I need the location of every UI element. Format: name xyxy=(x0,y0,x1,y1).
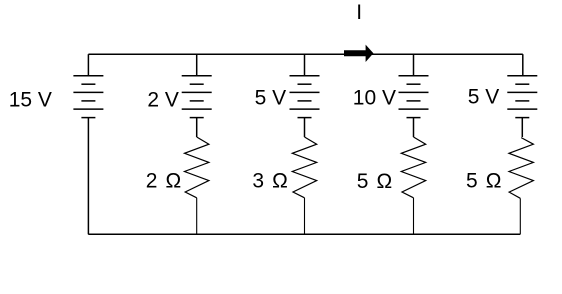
wire top bus xyxy=(88,53,522,55)
svg-text:2 Ω: 2 Ω xyxy=(146,169,183,192)
resistor R2 3ohm xyxy=(292,137,316,198)
svg-text:5 Ω: 5 Ω xyxy=(357,170,394,193)
wire left branch bottom xyxy=(87,118,89,235)
wire branch4 top stub xyxy=(413,54,415,75)
svg-text:5 Ω: 5 Ω xyxy=(466,169,503,192)
resistor R1 2ohm xyxy=(185,137,209,198)
svg-text:10 V: 10 V xyxy=(353,86,396,109)
svg-text:15 V: 15 V xyxy=(9,89,52,112)
svg-text:5 V: 5 V xyxy=(255,87,287,110)
svg-text:I: I xyxy=(356,1,362,24)
resistor R4 5ohm xyxy=(509,138,533,199)
wire branch4 bottom stub xyxy=(413,198,415,235)
wire branch5 bottom stub xyxy=(519,198,521,234)
svg-text:3 Ω: 3 Ω xyxy=(252,169,289,192)
wire branch2 bottom stub xyxy=(196,198,198,235)
battery B4 10V xyxy=(399,76,429,118)
current arrow xyxy=(344,45,373,62)
wire branch2 mid stub xyxy=(196,118,198,137)
resistor R3 5ohm xyxy=(401,137,425,198)
battery B1 15V xyxy=(73,76,103,118)
wire branch3 top stub xyxy=(304,54,306,75)
svg-text:5 V: 5 V xyxy=(468,86,500,109)
wire branch3 bottom stub xyxy=(304,198,306,235)
svg-text:2 V: 2 V xyxy=(147,89,179,112)
wire branch3 mid stub xyxy=(304,118,306,137)
wire branch4 mid stub xyxy=(413,118,415,137)
wire branch5 top stub xyxy=(522,54,524,75)
wire branch5 mid stub xyxy=(521,118,523,137)
wire branch2 top stub xyxy=(196,54,198,75)
wire left branch top stub xyxy=(87,54,89,75)
battery B2 2V xyxy=(182,76,212,118)
wire bottom bus xyxy=(88,233,520,235)
battery B5 5V xyxy=(507,76,537,118)
battery B3 5V xyxy=(290,76,320,118)
